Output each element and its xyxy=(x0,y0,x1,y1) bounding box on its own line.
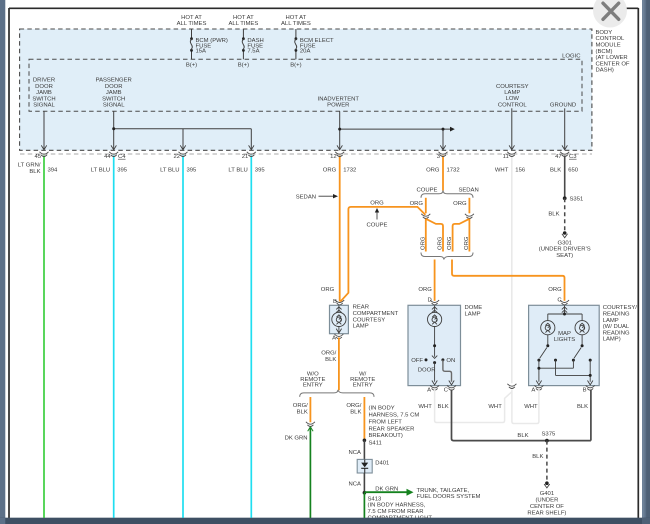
svg-text:B: B xyxy=(333,299,337,305)
splice S351 xyxy=(563,196,583,202)
svg-text:(IN BODY: (IN BODY xyxy=(369,406,395,412)
pin 21 xyxy=(242,152,256,160)
pin 22 xyxy=(173,152,187,160)
svg-text:7.5 CM FROM REAR: 7.5 CM FROM REAR xyxy=(368,509,424,515)
ground G401 xyxy=(527,481,566,516)
svg-text:HARNESS, 7.5 CM: HARNESS, 7.5 CM xyxy=(369,413,420,419)
svg-text:7.5A: 7.5A xyxy=(247,49,259,55)
bulb rear compartment courtesy lamp xyxy=(332,312,346,326)
svg-text:BLK: BLK xyxy=(438,404,449,410)
window bottom bar xyxy=(0,518,650,524)
wire NCA below diode xyxy=(348,473,364,493)
svg-text:156: 156 xyxy=(515,168,526,174)
svg-text:REAR SPEAKER: REAR SPEAKER xyxy=(369,426,415,432)
rear compartment courtesy lamp label xyxy=(353,305,399,330)
svg-text:395: 395 xyxy=(117,168,128,174)
pin 44 connector C4 xyxy=(104,152,126,160)
pin 3 xyxy=(437,152,448,160)
pin 47 connector C3 xyxy=(555,152,577,160)
BCM logic box xyxy=(29,54,582,112)
wire ORG/BLK w/o remote entry xyxy=(293,397,311,422)
splice S411 xyxy=(363,439,382,447)
bulb map light right xyxy=(575,321,589,335)
wire BLK dashed to G401 xyxy=(532,441,547,482)
svg-text:ON: ON xyxy=(446,358,455,364)
BCM internal wire driver signal to pin 45 xyxy=(43,111,45,149)
brace remote entry split xyxy=(300,372,376,397)
svg-text:SEAT): SEAT) xyxy=(556,253,573,259)
svg-text:BREAKOUT): BREAKOUT) xyxy=(369,433,403,439)
svg-text:LIGHTS: LIGHTS xyxy=(554,337,575,343)
svg-text:S351: S351 xyxy=(570,197,584,203)
svg-text:CENTER OF: CENTER OF xyxy=(596,61,630,67)
svg-text:395: 395 xyxy=(187,168,198,174)
svg-text:WHT: WHT xyxy=(524,404,538,410)
courtesy/reading lamp E3 xyxy=(529,298,638,386)
wire ORG bundle of four below connectors xyxy=(426,219,470,252)
fuse F1 BCM (PWR) FUSE 15A xyxy=(177,15,228,69)
svg-text:WHT: WHT xyxy=(488,404,502,410)
svg-text:TRUNK, TAILGATE,: TRUNK, TAILGATE, xyxy=(417,488,470,494)
svg-text:G401: G401 xyxy=(540,491,554,497)
svg-text:44: 44 xyxy=(104,154,111,160)
svg-text:LT BLU: LT BLU xyxy=(160,168,179,174)
svg-text:LOGIC: LOGIC xyxy=(562,54,581,60)
svg-text:SEDAN: SEDAN xyxy=(458,188,478,194)
dome lamp door switch xyxy=(411,344,455,385)
svg-text:ORG: ORG xyxy=(437,236,443,250)
wire DK GRN below S413 xyxy=(363,493,365,518)
diode D401 xyxy=(357,459,389,473)
wire WHT from dome lamp pin A xyxy=(418,390,512,423)
BCM U1 body control module box xyxy=(20,29,592,150)
svg-text:ORG: ORG xyxy=(321,287,335,293)
svg-text:(UNDER DRIVER'S: (UNDER DRIVER'S xyxy=(539,247,591,253)
svg-text:COURTESY: COURTESY xyxy=(496,84,529,90)
svg-text:21: 21 xyxy=(242,154,249,160)
wire WHT 156 from pin 11 xyxy=(495,156,526,384)
svg-text:ORG: ORG xyxy=(323,168,337,174)
svg-text:BLK: BLK xyxy=(532,454,543,460)
window left bar xyxy=(0,0,5,524)
pin 12 xyxy=(330,152,344,160)
wire ORG coupe side below brace xyxy=(410,198,426,214)
inline connector on sedan side xyxy=(465,214,474,219)
svg-text:45: 45 xyxy=(34,154,41,160)
svg-text:DK GRN: DK GRN xyxy=(375,486,398,492)
svg-text:DOOR: DOOR xyxy=(35,84,53,90)
svg-text:CONTROL: CONTROL xyxy=(596,36,626,42)
svg-text:(IN BODY HARNESS,: (IN BODY HARNESS, xyxy=(368,503,426,509)
svg-text:ENTRY: ENTRY xyxy=(353,382,373,388)
wire BLK dashed to G301 xyxy=(548,198,564,231)
svg-text:COURTESY/: COURTESY/ xyxy=(603,305,638,311)
svg-text:ORG/: ORG/ xyxy=(293,403,308,409)
svg-text:WHT: WHT xyxy=(418,404,432,410)
svg-text:BODY: BODY xyxy=(596,30,613,36)
splice S375 xyxy=(542,432,556,443)
rotated ORG labels on bundle xyxy=(420,236,470,250)
svg-text:POWER: POWER xyxy=(327,103,349,109)
svg-text:395: 395 xyxy=(255,168,266,174)
svg-text:LAMP: LAMP xyxy=(603,318,619,324)
svg-text:BLK: BLK xyxy=(548,212,559,218)
dome lamp pin A xyxy=(427,385,439,393)
svg-text:JAMB: JAMB xyxy=(106,90,122,96)
svg-text:20A: 20A xyxy=(300,49,311,55)
wire WHT from courtesy lamp pin A xyxy=(512,390,539,424)
inline connector on WHT wire xyxy=(507,384,516,389)
svg-text:S411: S411 xyxy=(369,440,382,446)
svg-text:ALL TIMES: ALL TIMES xyxy=(229,21,259,27)
svg-text:SWITCH: SWITCH xyxy=(32,96,55,102)
splice S413 xyxy=(363,491,433,521)
svg-text:C: C xyxy=(444,388,449,394)
svg-text:ORG: ORG xyxy=(426,168,440,174)
svg-text:NCA: NCA xyxy=(348,450,361,456)
svg-text:ORG: ORG xyxy=(370,201,384,207)
brace merge below bundle xyxy=(421,253,473,260)
svg-text:SIGNAL: SIGNAL xyxy=(103,103,125,109)
svg-text:47: 47 xyxy=(555,154,562,160)
svg-text:SIGNAL: SIGNAL xyxy=(33,103,55,109)
svg-text:LAMP: LAMP xyxy=(465,312,481,318)
svg-text:15A: 15A xyxy=(196,49,207,55)
svg-text:A: A xyxy=(531,388,535,394)
svg-text:(W/ DUAL: (W/ DUAL xyxy=(603,324,630,330)
bulb map light left xyxy=(541,321,555,335)
svg-text:LT GRN/: LT GRN/ xyxy=(18,163,41,169)
wire LT BLU 395 from pin 44 xyxy=(91,156,128,519)
courtesy lamp pin A xyxy=(531,385,543,393)
svg-text:DK GRN: DK GRN xyxy=(285,436,308,442)
wire ORG/BLK from rear lamp pin A xyxy=(321,338,339,391)
inline connector on coupe side xyxy=(421,214,430,219)
wire NCA to diode xyxy=(348,440,364,459)
map light switches network xyxy=(536,335,593,385)
svg-text:ORG/: ORG/ xyxy=(346,403,361,409)
BCM ground label xyxy=(550,102,576,108)
svg-text:S413: S413 xyxy=(368,496,382,502)
svg-text:FROM LEFT: FROM LEFT xyxy=(369,419,403,425)
svg-text:DOME: DOME xyxy=(465,305,483,311)
svg-text:A: A xyxy=(427,388,431,394)
svg-text:DOOR: DOOR xyxy=(105,84,123,90)
BCM passenger door jamb switch signal label xyxy=(96,78,132,109)
svg-text:GROUND: GROUND xyxy=(550,102,576,108)
svg-text:WHT: WHT xyxy=(495,168,509,174)
svg-text:B(+): B(+) xyxy=(186,62,197,68)
svg-text:LOW: LOW xyxy=(506,96,520,102)
wire DK GRN down w/o remote entry xyxy=(285,427,314,518)
svg-text:CONTROL: CONTROL xyxy=(498,102,528,108)
BCM inadvertent power label xyxy=(318,96,360,108)
svg-text:CENTER OF: CENTER OF xyxy=(530,504,564,510)
svg-text:(BCM): (BCM) xyxy=(596,49,613,55)
svg-text:22: 22 xyxy=(173,154,180,160)
svg-text:BLK: BLK xyxy=(577,404,588,410)
svg-text:OFF: OFF xyxy=(411,358,423,364)
svg-text:1732: 1732 xyxy=(447,168,460,174)
svg-text:(AT LOWER: (AT LOWER xyxy=(596,55,628,61)
svg-text:HOT AT: HOT AT xyxy=(181,15,202,21)
wire ORG 1732 from pin 12 xyxy=(323,156,357,302)
svg-text:READING: READING xyxy=(603,330,630,336)
svg-text:D401: D401 xyxy=(375,460,389,466)
rear lamp pin A xyxy=(332,329,343,342)
svg-text:BLK: BLK xyxy=(350,409,361,415)
svg-text:S375: S375 xyxy=(542,432,556,438)
svg-text:ORG: ORG xyxy=(420,236,426,250)
svg-text:COUPE: COUPE xyxy=(417,188,438,194)
wire ORG/BLK w/ remote entry xyxy=(346,397,364,440)
svg-text:COURTESY: COURTESY xyxy=(353,317,386,323)
wire LT BLU 395 from pin 21 xyxy=(228,156,265,519)
svg-text:FUEL DOORS SYSTEM: FUEL DOORS SYSTEM xyxy=(417,494,481,500)
fuse F3 BCM ELECT FUSE 20A xyxy=(281,15,334,69)
svg-text:LAMP): LAMP) xyxy=(603,337,621,343)
svg-text:SWITCH: SWITCH xyxy=(102,96,125,102)
fuse F2 DASH FUSE 7.5A xyxy=(229,15,264,69)
BCM courtesy lamp low control label xyxy=(496,84,529,109)
connector dashed line under BCM xyxy=(20,153,592,155)
svg-text:394: 394 xyxy=(48,168,59,174)
rear compartment courtesy lamp E1 xyxy=(330,299,349,334)
wire ORG 1732 from pin 3 xyxy=(426,156,460,191)
svg-text:(UNDER: (UNDER xyxy=(535,497,558,503)
svg-text:C4: C4 xyxy=(118,154,126,160)
window bottom bar overlay xyxy=(0,518,650,524)
wire ORG to dome lamp pin D xyxy=(418,260,434,301)
COUPE pointer label xyxy=(367,208,388,228)
svg-text:ORG: ORG xyxy=(464,236,470,250)
svg-text:BLK: BLK xyxy=(550,168,561,174)
svg-text:A: A xyxy=(332,336,336,342)
svg-text:ORG: ORG xyxy=(418,287,432,293)
svg-text:COMPARTMENT: COMPARTMENT xyxy=(353,311,399,317)
svg-text:12: 12 xyxy=(330,154,337,160)
svg-text:JAMB: JAMB xyxy=(36,90,52,96)
wire BLK from dome lamp pin C to S375 xyxy=(438,390,591,441)
pin 45 xyxy=(34,152,48,160)
svg-text:B: B xyxy=(583,388,587,394)
brace coupe/sedan split at pin 3 wire xyxy=(417,188,479,198)
svg-text:DOOR: DOOR xyxy=(418,368,436,374)
svg-text:11: 11 xyxy=(503,154,509,160)
bulb dome lamp xyxy=(428,312,442,326)
BCM internal wire courtesy lamp low control to pin 11 xyxy=(511,108,513,149)
svg-text:BLK: BLK xyxy=(29,169,40,175)
svg-text:NCA: NCA xyxy=(348,481,361,487)
svg-text:ALL TIMES: ALL TIMES xyxy=(177,21,207,27)
pin 11 xyxy=(503,152,517,160)
svg-text:REAR: REAR xyxy=(353,305,369,311)
svg-text:ORG: ORG xyxy=(410,201,424,207)
svg-text:INADVERTENT: INADVERTENT xyxy=(318,96,360,102)
svg-text:COUPE: COUPE xyxy=(367,222,388,228)
svg-text:HOT AT: HOT AT xyxy=(286,15,307,21)
svg-text:ORG: ORG xyxy=(453,201,467,207)
svg-text:C3: C3 xyxy=(569,154,577,160)
svg-text:BLK: BLK xyxy=(297,409,308,415)
BCM label xyxy=(596,30,630,74)
svg-text:ORG: ORG xyxy=(548,287,562,293)
svg-text:REAR SHELF): REAR SHELF) xyxy=(527,510,566,516)
ground G301 xyxy=(539,231,591,259)
SEDAN pointer label xyxy=(296,194,338,200)
wire ORG sedan side below brace xyxy=(453,198,469,214)
svg-text:DRIVER: DRIVER xyxy=(33,78,55,84)
svg-text:LAMP: LAMP xyxy=(504,90,520,96)
svg-text:B(+): B(+) xyxy=(238,62,249,68)
wire BLK 650 from pin 47 xyxy=(550,156,579,199)
svg-text:1732: 1732 xyxy=(343,168,356,174)
close button xyxy=(593,0,627,28)
svg-text:LAMP: LAMP xyxy=(353,324,369,330)
svg-text:ORG: ORG xyxy=(447,236,453,250)
svg-text:DASH): DASH) xyxy=(596,68,614,74)
wire ORG to courtesy/reading lamp pin C xyxy=(452,260,565,301)
svg-text:LT BLU: LT BLU xyxy=(228,168,247,174)
svg-text:BLK: BLK xyxy=(325,357,336,363)
svg-text:650: 650 xyxy=(568,168,579,174)
wire DK GRN arrow to trunk tailgate fuel doors system xyxy=(364,486,480,500)
BCM driver door jamb switch signal label xyxy=(32,78,55,109)
window right bar xyxy=(642,0,650,524)
wire ORG coupe branch to rear lamp xyxy=(321,201,426,302)
wire LT GRN/BLK 394 from pin 45 xyxy=(18,156,58,519)
dome lamp pin C xyxy=(444,385,456,393)
wire LT BLU 395 from pin 22 xyxy=(160,156,197,519)
svg-text:ENTRY: ENTRY xyxy=(303,382,323,388)
svg-text:ORG/: ORG/ xyxy=(321,351,336,357)
svg-text:SEDAN: SEDAN xyxy=(296,194,316,200)
BCM internal wire ground to pin 47 xyxy=(564,108,566,149)
svg-text:BLK: BLK xyxy=(517,433,528,439)
svg-text:LT BLU: LT BLU xyxy=(91,168,110,174)
svg-text:B(+): B(+) xyxy=(290,62,301,68)
svg-text:READING: READING xyxy=(603,312,630,318)
courtesy lamp pin B xyxy=(583,385,595,393)
svg-text:HOT AT: HOT AT xyxy=(233,15,254,21)
inline connector to DK GRN xyxy=(306,422,315,427)
BCM internal wire inadvertent power bus to pins 12 3 xyxy=(340,111,450,149)
harness note S411 xyxy=(369,406,420,440)
svg-text:ALL TIMES: ALL TIMES xyxy=(281,21,311,27)
dome lamp E2 xyxy=(408,298,482,386)
BCM internal wire passenger signal bus to pins 44 22 21 xyxy=(114,111,252,149)
wire BLK from courtesy lamp pin B to S375 xyxy=(577,390,591,441)
svg-text:PASSENGER: PASSENGER xyxy=(96,78,132,84)
svg-text:MAP: MAP xyxy=(558,331,571,337)
svg-text:G301: G301 xyxy=(557,240,571,246)
svg-text:MODULE: MODULE xyxy=(596,43,621,49)
